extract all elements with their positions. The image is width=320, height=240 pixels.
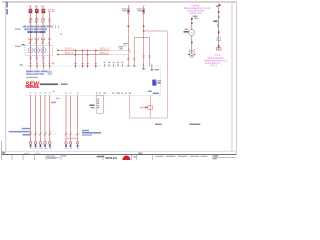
svg-text:FU 2: FU 2 bbox=[215, 54, 221, 57]
svg-text:rechts + FU: rechts + FU bbox=[189, 12, 202, 15]
svg-text:230V_L1: 230V_L1 bbox=[100, 48, 110, 51]
svg-text:230V_N: 230V_N bbox=[100, 52, 109, 55]
svg-text:+ FU 1: + FU 1 bbox=[210, 64, 218, 67]
svg-text:230V_L1: 230V_L1 bbox=[65, 48, 75, 51]
svg-text:230V_N: 230V_N bbox=[65, 52, 74, 55]
svg-text:Kuehler: Kuehler bbox=[191, 4, 199, 7]
svg-text:SEW-EU: SEW-EU bbox=[105, 156, 117, 160]
